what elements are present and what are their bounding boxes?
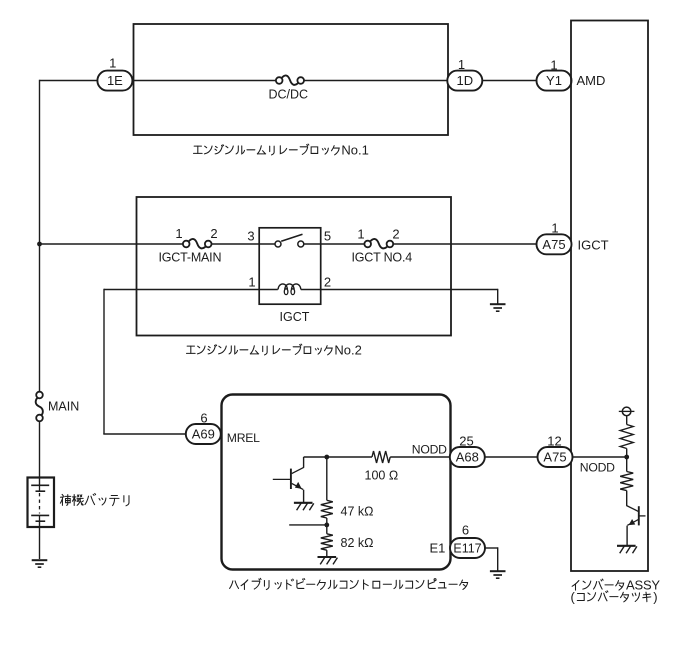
svg-text:MAIN: MAIN	[48, 400, 79, 414]
power terminal symbol (circle with bar) in inverter	[619, 407, 635, 424]
wire: relay coil pin 2 to ground stub	[301, 289, 498, 304]
svg-text:1D: 1D	[456, 73, 473, 88]
connector Y1	[537, 71, 572, 91]
svg-text:IGCT: IGCT	[280, 310, 310, 324]
ground for E117 (earth symbol)	[490, 571, 506, 578]
wire: relay pin 3 lead to switch contact	[259, 243, 275, 245]
svg-text:3: 3	[247, 229, 254, 244]
resistor 100 ohm	[372, 451, 390, 463]
wire: connector 1D to connector Y1	[482, 80, 537, 82]
svg-text:100 Ω: 100 Ω	[365, 469, 399, 483]
connector 1D	[447, 71, 482, 91]
relay IGCT inner box	[259, 228, 321, 304]
svg-text:DC/DC: DC/DC	[269, 88, 309, 102]
junction node: left rail to IGCT-MAIN row	[37, 242, 42, 247]
wire: relay coil pin1 down to connector A69 (MREL)	[103, 289, 186, 434]
label: engine room relay block No.1 (Japanese)	[193, 143, 368, 158]
svg-text:E117: E117	[453, 541, 481, 555]
wire: lower junction to 82k resistor	[326, 525, 328, 534]
hybrid vehicle control computer box	[222, 395, 451, 570]
wire: fuse DC/DC to connector 1D	[304, 80, 449, 82]
wire: fuse IGCT NO.4 to connector A75	[393, 243, 537, 245]
svg-text:1: 1	[109, 56, 116, 71]
svg-text:2: 2	[210, 226, 217, 241]
wire: connector E117 to ground	[485, 547, 498, 570]
fuse DC/DC	[276, 75, 304, 84]
battery 補機バッテリ box	[28, 478, 55, 528]
svg-text:IGCT-MAIN: IGCT-MAIN	[159, 250, 222, 264]
relay block No.2 box (engine room relay block No.2)	[137, 197, 452, 336]
svg-text:2: 2	[392, 227, 399, 242]
battery cell plates	[31, 478, 49, 528]
svg-text:1E: 1E	[107, 73, 123, 88]
fuse MAIN (vertical)	[36, 392, 43, 422]
svg-text:2: 2	[324, 275, 331, 290]
svg-text:AMD: AMD	[577, 73, 606, 88]
svg-text:A69: A69	[192, 427, 215, 442]
ground for battery (earth symbol)	[32, 560, 48, 567]
junction node: divider tap	[324, 523, 329, 528]
svg-text:IGCT: IGCT	[578, 238, 609, 253]
svg-text:NODD: NODD	[580, 461, 615, 475]
svg-text:Y1: Y1	[546, 73, 562, 88]
wire: fuse IGCT-MAIN to relay IGCT pin 3	[211, 243, 259, 245]
svg-text:A75: A75	[543, 450, 566, 465]
wire: R2 to transistor collector	[626, 491, 628, 506]
connector A75 (NODD row)	[538, 447, 573, 467]
wire: row1 inside relay block No.1 to fuse DC/DC	[132, 80, 277, 82]
svg-text:No.1: No.1	[341, 143, 368, 158]
svg-text:1: 1	[175, 226, 182, 241]
ground for inverter transistor (chassis symbol)	[617, 546, 637, 553]
transistor Q1 (computer internal, NPN)	[273, 457, 304, 502]
connector A75 (IGCT row)	[537, 234, 572, 254]
wire: left rail to fuse IGCT-MAIN	[40, 243, 184, 245]
svg-text:No.2: No.2	[334, 343, 361, 358]
ground for relay coil (earth symbol)	[490, 304, 506, 311]
wire: connector A68 to connector A75	[485, 456, 538, 458]
label: engine room relay block No.2 (Japanese)	[186, 343, 361, 358]
svg-text:E1: E1	[430, 541, 446, 556]
inverter ASSY box	[571, 21, 648, 572]
fuse IGCT-MAIN	[183, 239, 212, 248]
svg-text:): )	[653, 589, 657, 604]
relay switch contacts and lever	[275, 234, 304, 247]
connector A69	[186, 424, 221, 444]
ground for 82k resistor (chassis symbol)	[318, 557, 338, 564]
junction node: collector / 47k branch	[324, 455, 329, 460]
wire: R1 to NODD node	[626, 449, 628, 458]
resistor R1 in inverter (upper)	[620, 425, 633, 449]
resistor 47k	[321, 500, 333, 518]
svg-text:47 kΩ: 47 kΩ	[341, 505, 374, 519]
svg-text:A75: A75	[542, 237, 565, 252]
wire: 47k resistor to lower junction	[326, 518, 328, 525]
wire: connector A75 into inverter to internal node	[572, 456, 626, 458]
wire: switch contact to relay pin 5	[304, 243, 321, 245]
resistor R2 in inverter (lower)	[620, 472, 633, 491]
connector E117	[450, 538, 485, 558]
wire: 100 ohm resistor to connector A68	[390, 456, 450, 458]
svg-text:6: 6	[462, 523, 469, 538]
wire: battery feed from 1E left and down the left side	[40, 80, 98, 392]
relay block No.1 box (engine room relay block No.1)	[134, 24, 449, 135]
junction node: NODD net in inverter	[624, 455, 629, 460]
svg-text:1: 1	[551, 221, 558, 236]
svg-text:82 kΩ: 82 kΩ	[341, 536, 374, 550]
label: with converter (Japanese, parenthesized)	[571, 589, 658, 604]
svg-text:MREL: MREL	[227, 431, 260, 445]
wire: junction down to 47k resistor	[326, 457, 328, 500]
svg-text:A68: A68	[456, 450, 479, 465]
svg-text:5: 5	[324, 229, 331, 244]
svg-text:(: (	[571, 589, 576, 604]
ground for transistor emitter (chassis symbol)	[294, 503, 314, 510]
transistor Q2 (inverter internal, NPN mirrored)	[626, 506, 645, 546]
svg-text:IGCT NO.4: IGCT NO.4	[352, 250, 413, 264]
svg-text:NODD: NODD	[412, 442, 447, 456]
wire: relay coil pin 1 lead	[104, 289, 278, 291]
label: inverter ASSY (Japanese)	[572, 578, 660, 593]
connector A68	[450, 447, 485, 467]
resistor 82k	[321, 534, 333, 550]
svg-text:1: 1	[357, 227, 364, 242]
svg-text:1: 1	[248, 275, 255, 290]
label battery (Japanese)	[60, 493, 129, 505]
label: hybrid vehicle control computer (Japanese)	[230, 578, 468, 589]
wire: transistor collector to 100 ohm resistor	[304, 456, 372, 458]
wire: divider tap stub to the left	[289, 524, 327, 526]
relay coil IGCT	[278, 284, 301, 295]
connector 1E	[97, 71, 132, 91]
wire: 82k resistor to ground	[326, 550, 328, 556]
fuse IGCT NO.4	[364, 239, 393, 248]
wire: NODD node down to R2	[626, 457, 628, 472]
wire: relay pin 5 to fuse IGCT NO.4	[321, 243, 365, 245]
wire: left rail continues to MAIN fuse / battery	[39, 421, 41, 559]
